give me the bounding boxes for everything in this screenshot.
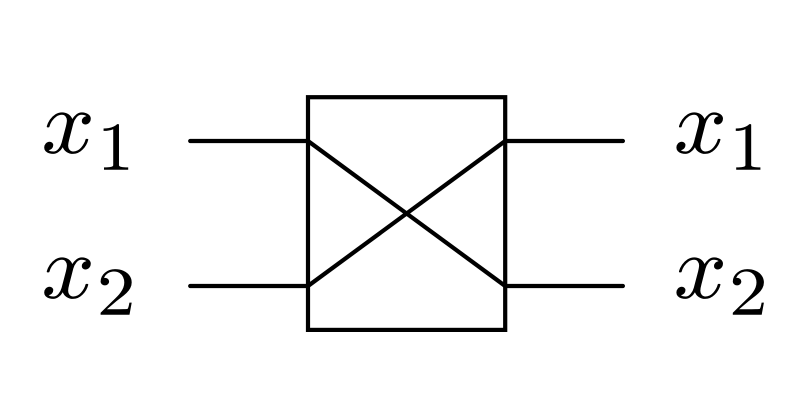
label x2 left: x [44, 257, 91, 299]
label x1 right: subscript 1 [736, 124, 761, 170]
label x2 right: subscript 2 [733, 269, 764, 315]
wire input x2 (left bottom) [190, 284, 308, 288]
crossbar box U1 [308, 97, 505, 330]
wire output x1 (right top) [505, 139, 623, 143]
cross path from input x2 to output x1 (diagonal up) [308, 141, 505, 286]
label x1 left: subscript 1 [104, 124, 129, 170]
label x2 left: subscript 2 [101, 269, 132, 315]
cross path from input x1 to output x2 (diagonal down) [308, 141, 505, 286]
label x1 left: x [44, 112, 91, 154]
wire output x2 (right bottom) [505, 284, 623, 288]
wire input x1 (left top) [190, 139, 308, 143]
label x2 right: x [676, 257, 723, 299]
label x1 right: x [676, 112, 723, 154]
